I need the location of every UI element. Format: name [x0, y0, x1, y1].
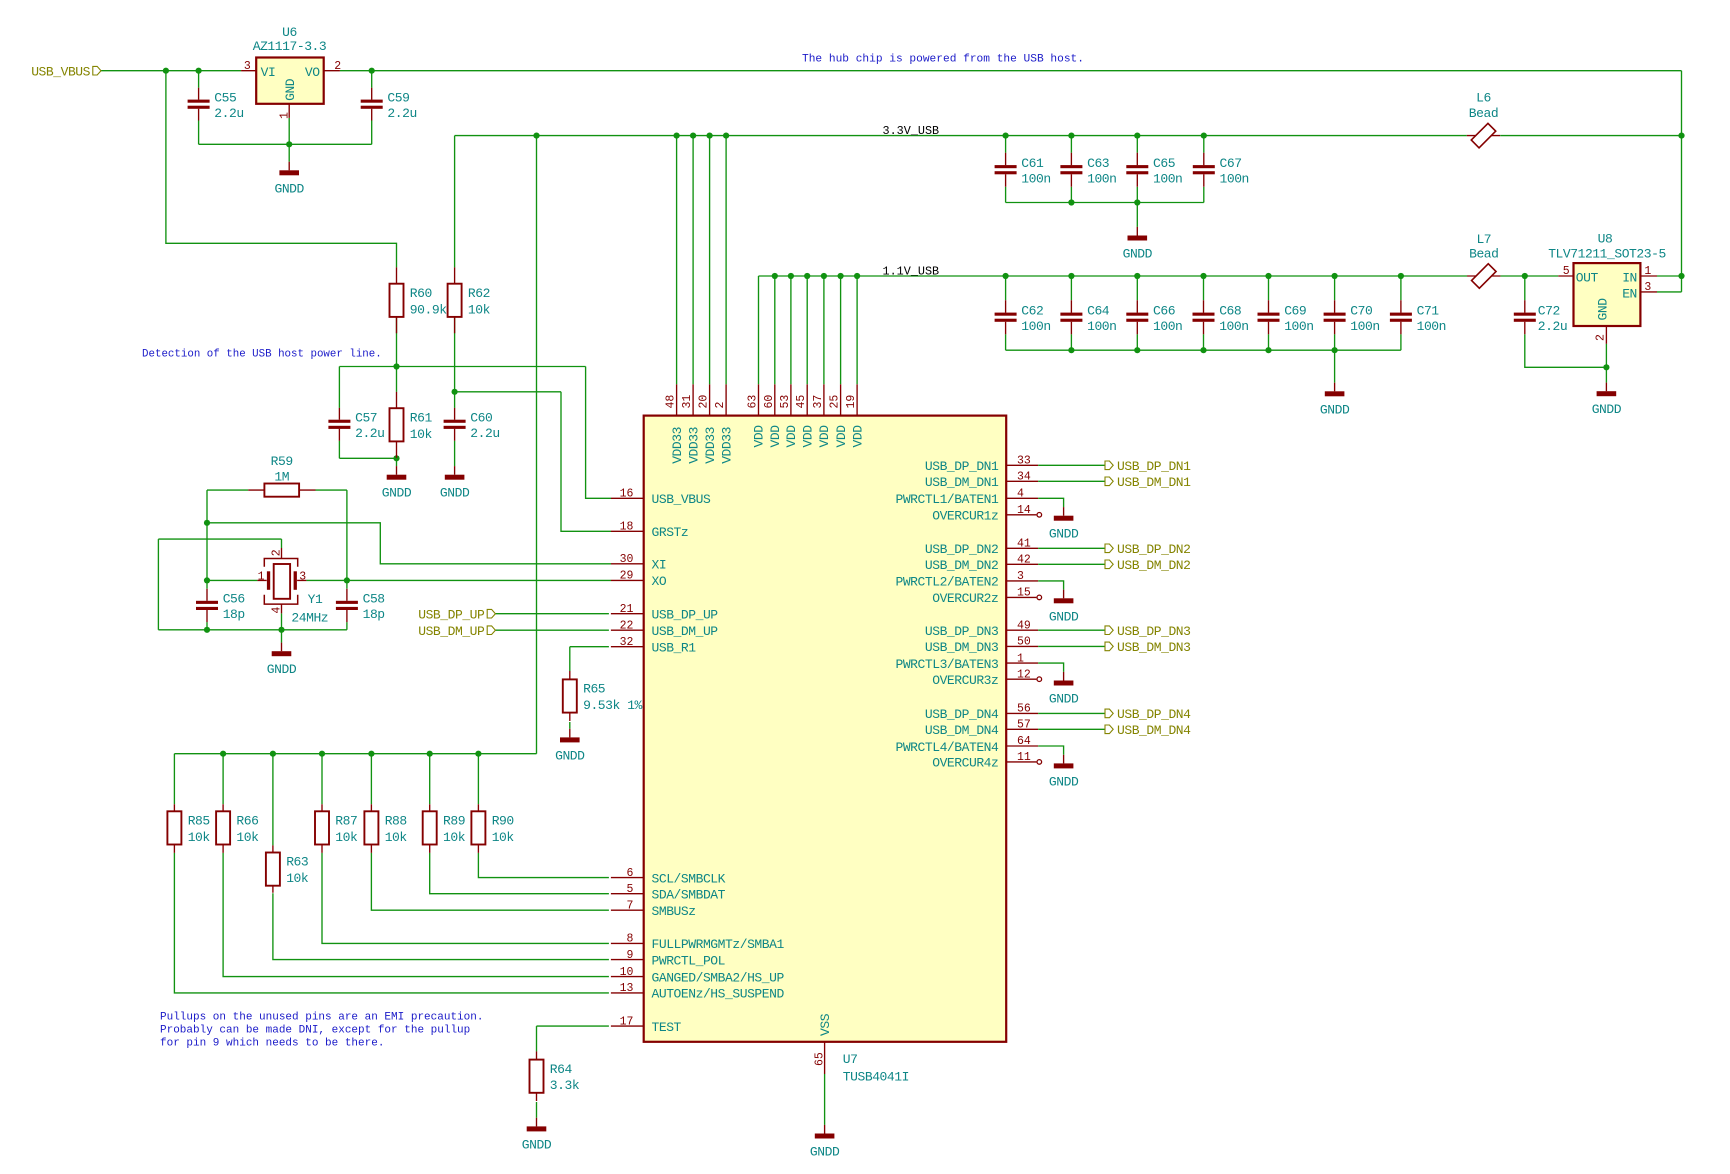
- wire 1.1V_USB rail: [759, 275, 1468, 277]
- ground GNDD under R65: [555, 729, 585, 764]
- svg-text:1: 1: [258, 571, 265, 584]
- svg-text:2: 2: [714, 402, 727, 409]
- svg-text:C69: C69: [1284, 304, 1306, 319]
- svg-text:2: 2: [1594, 334, 1607, 341]
- svg-text:Bead: Bead: [1469, 106, 1498, 121]
- svg-text:37: 37: [812, 395, 825, 409]
- svg-text:42: 42: [1017, 554, 1031, 567]
- wire PWRCTL1 to GNDD: [1038, 498, 1063, 507]
- wire R59 right: [316, 489, 347, 491]
- wire USB_DP_UP to pin 21: [495, 613, 609, 615]
- svg-text:3: 3: [244, 60, 251, 73]
- svg-text:U8: U8: [1598, 232, 1613, 247]
- svg-text:50: 50: [1017, 636, 1031, 649]
- svg-text:VDD: VDD: [817, 425, 832, 448]
- svg-text:7: 7: [626, 899, 633, 912]
- svg-text:USB_DP_UP: USB_DP_UP: [418, 607, 485, 622]
- svg-text:R66: R66: [236, 814, 258, 829]
- svg-text:29: 29: [620, 570, 634, 583]
- resistor R60: [390, 267, 448, 333]
- ground GNDD under VSS: [810, 1125, 840, 1160]
- junctions 1.1V cap ground rail: [1068, 347, 1337, 353]
- svg-text:C67: C67: [1220, 156, 1242, 171]
- svg-text:GANGED/SMBA2/HS_UP: GANGED/SMBA2/HS_UP: [652, 970, 785, 985]
- svg-text:GNDD: GNDD: [1320, 402, 1350, 417]
- wire crystal right node vertical: [346, 490, 348, 589]
- wire C60 bottom to GNDD: [454, 441, 456, 466]
- junction U8 ground node: [1603, 364, 1609, 370]
- wire to R64: [536, 1026, 538, 1051]
- svg-text:GNDD: GNDD: [1123, 247, 1153, 262]
- svg-text:15: 15: [1017, 587, 1031, 600]
- junctions pullup rail: [220, 751, 482, 757]
- wire R62 bottom to GRSTz node: [454, 317, 456, 392]
- resistor R61: [390, 392, 433, 458]
- wire right edge vertical down to U8 IN/EN: [1681, 71, 1683, 292]
- wire R63 bottom to pin 9: [273, 893, 609, 959]
- ferrite bead L6: [1467, 91, 1500, 148]
- svg-text:4: 4: [1017, 488, 1024, 501]
- wire USB_DM_DN3: [1038, 645, 1105, 647]
- wire TEST pin 17: [537, 1025, 609, 1027]
- wire R63 top: [272, 754, 274, 846]
- svg-text:60: 60: [763, 395, 776, 409]
- svg-text:TLV71211_SOT23-5: TLV71211_SOT23-5: [1548, 246, 1666, 261]
- svg-text:1: 1: [1644, 265, 1651, 278]
- svg-text:C64: C64: [1087, 304, 1110, 319]
- wire USB_DM_UP to pin 22: [495, 629, 609, 631]
- svg-text:GRSTz: GRSTz: [652, 525, 689, 540]
- svg-text:USB_DM_DN1: USB_DM_DN1: [1117, 475, 1191, 490]
- svg-text:2.2u: 2.2u: [470, 426, 499, 441]
- wire R61 bottom to GNDD: [396, 458, 398, 466]
- svg-text:2: 2: [271, 549, 284, 556]
- resistor R88: [364, 804, 407, 853]
- wire to GNDD of 1.1V cap bank: [1334, 350, 1336, 383]
- svg-text:VDD: VDD: [784, 425, 799, 448]
- junctions on USB_VBUS rail: [163, 68, 375, 74]
- svg-text:49: 49: [1017, 619, 1031, 632]
- wire 1.1V to VDD pin drop 3: [790, 276, 792, 384]
- svg-text:C63: C63: [1087, 156, 1109, 171]
- svg-text:USB_DP_DN1: USB_DP_DN1: [925, 459, 999, 474]
- svg-text:33: 33: [1017, 455, 1031, 468]
- wire PWRCTL3 to GNDD: [1038, 663, 1063, 672]
- wire 1.1V to VDD pin drop 7: [856, 276, 858, 384]
- resistor R59: [248, 454, 315, 497]
- wire R89 top: [429, 754, 431, 805]
- svg-text:USB_DM_DN1: USB_DM_DN1: [925, 475, 999, 490]
- capacitor C56: [196, 589, 245, 622]
- svg-text:C71: C71: [1417, 304, 1440, 319]
- svg-text:R65: R65: [583, 682, 605, 697]
- hub chip U7 TUSB4041I: [611, 384, 1042, 1084]
- wire crystal pin1 link: [207, 579, 257, 581]
- wire crystal left node vertical: [206, 490, 208, 589]
- svg-text:10k: 10k: [188, 830, 211, 845]
- svg-text:USB_DP_DN1: USB_DP_DN1: [1117, 459, 1191, 474]
- svg-text:for pin 9 which needs to be th: for pin 9 which needs to be there.: [160, 1038, 384, 1050]
- wire 3.3V after L6 to right edge: [1500, 135, 1681, 137]
- svg-text:2.2u: 2.2u: [1538, 319, 1567, 334]
- svg-text:11: 11: [1017, 751, 1031, 764]
- svg-text:R62: R62: [468, 286, 490, 301]
- capacitor C65: [1126, 153, 1182, 187]
- svg-text:FULLPWRMGMTz/SMBA1: FULLPWRMGMTz/SMBA1: [652, 937, 785, 952]
- wire 1.1V to VDD pin drop 1: [758, 276, 760, 384]
- wire 1.1V to VDD pin drop 4: [806, 276, 808, 384]
- svg-text:USB_DP_DN4: USB_DP_DN4: [925, 707, 999, 722]
- wire R88 top: [370, 754, 372, 805]
- wire R61 top: [396, 367, 398, 392]
- svg-text:C62: C62: [1021, 304, 1043, 319]
- capacitor C70: [1324, 300, 1380, 334]
- svg-text:AZ1117-3.3: AZ1117-3.3: [253, 39, 327, 54]
- svg-text:9: 9: [626, 949, 633, 962]
- resistor R66: [216, 804, 259, 853]
- wire R90 top: [477, 754, 479, 805]
- junctions crystal nodes: [204, 520, 350, 633]
- svg-text:10k: 10k: [385, 830, 408, 845]
- svg-text:VDD: VDD: [834, 425, 849, 448]
- svg-text:GNDD: GNDD: [1049, 609, 1079, 624]
- svg-text:USB_DP_DN4: USB_DP_DN4: [1117, 707, 1191, 722]
- svg-text:C66: C66: [1153, 304, 1175, 319]
- svg-text:R85: R85: [188, 814, 210, 829]
- svg-text:100n: 100n: [1220, 171, 1249, 186]
- hier label USB_VBUS: [31, 64, 101, 79]
- ground GNDD 1.1V cap bank: [1320, 383, 1350, 418]
- wire R85 bottom to chip: [174, 853, 609, 993]
- wire 1.1V to VDD pin drop 5: [823, 276, 825, 384]
- wire crystal ground rail: [158, 629, 347, 631]
- svg-text:10k: 10k: [410, 427, 433, 442]
- svg-text:10k: 10k: [236, 830, 259, 845]
- wire U8 GND pin down: [1605, 344, 1607, 383]
- svg-text:C68: C68: [1219, 304, 1241, 319]
- svg-text:GNDD: GNDD: [522, 1137, 552, 1152]
- capacitor C58: [336, 589, 385, 622]
- svg-text:22: 22: [620, 619, 634, 632]
- capacitor C71: [1390, 300, 1446, 334]
- svg-text:4: 4: [270, 607, 283, 614]
- svg-text:56: 56: [1017, 703, 1031, 716]
- wire C59 top: [371, 71, 373, 88]
- svg-text:VSS: VSS: [818, 1013, 833, 1036]
- wire USB_VBUS from label to U6 VI: [101, 70, 241, 72]
- svg-text:R87: R87: [335, 814, 357, 829]
- svg-text:GNDD: GNDD: [810, 1145, 840, 1160]
- svg-text:C57: C57: [355, 411, 377, 426]
- svg-text:5: 5: [626, 883, 633, 896]
- svg-text:R90: R90: [492, 814, 514, 829]
- hier label USB_DM_DN2: [1105, 558, 1191, 573]
- svg-text:U7: U7: [843, 1052, 858, 1067]
- svg-text:XI: XI: [652, 558, 667, 573]
- svg-text:1: 1: [1017, 652, 1024, 665]
- svg-text:PWRCTL4/BATEN4: PWRCTL4/BATEN4: [895, 740, 999, 755]
- resistor R63: [266, 845, 309, 892]
- svg-text:USB_R1: USB_R1: [652, 641, 697, 656]
- resistor R90: [471, 804, 514, 853]
- svg-text:USB_DP_DN2: USB_DP_DN2: [1117, 542, 1191, 557]
- svg-text:GNDD: GNDD: [274, 181, 304, 196]
- junctions 3.3V cap ground rail: [1068, 199, 1140, 205]
- svg-text:R88: R88: [385, 814, 407, 829]
- wire R66 top: [222, 754, 224, 805]
- svg-text:32: 32: [620, 636, 634, 649]
- wire USB_DP_DN4: [1038, 712, 1105, 714]
- wire U8 EN to right edge: [1657, 291, 1682, 293]
- svg-text:USB_DP_DN3: USB_DP_DN3: [925, 624, 999, 639]
- svg-text:TUSB4041I: TUSB4041I: [843, 1069, 909, 1084]
- svg-text:17: 17: [620, 1015, 634, 1028]
- wire C55 top: [198, 71, 200, 88]
- svg-text:USB_DM_DN3: USB_DM_DN3: [1117, 640, 1191, 655]
- svg-text:10k: 10k: [468, 302, 491, 317]
- svg-text:30: 30: [620, 553, 634, 566]
- svg-text:R61: R61: [410, 410, 433, 425]
- svg-text:VDD: VDD: [752, 425, 767, 448]
- capacitor C67: [1193, 153, 1249, 187]
- svg-text:C61: C61: [1021, 156, 1044, 171]
- hier label USB_DP_DN3: [1105, 624, 1191, 639]
- svg-text:GNDD: GNDD: [1049, 692, 1079, 707]
- ground GNDD PWRCTL1: [1049, 507, 1079, 542]
- wire R65 bottom to GNDD: [569, 722, 571, 729]
- svg-text:PWRCTL2/BATEN2: PWRCTL2/BATEN2: [895, 575, 998, 590]
- svg-text:18p: 18p: [223, 607, 245, 622]
- svg-text:90.9k: 90.9k: [410, 302, 447, 317]
- svg-text:IN: IN: [1622, 271, 1637, 286]
- svg-text:100n: 100n: [1153, 171, 1182, 186]
- svg-text:100n: 100n: [1350, 319, 1379, 334]
- svg-text:C59: C59: [387, 91, 409, 106]
- junction U6 ground rail: [286, 141, 292, 147]
- wire R64 bottom to GNDD: [536, 1102, 538, 1118]
- wire 3.3V to VDD33 pin drop 3: [709, 136, 711, 385]
- junctions divider nodes: [393, 363, 457, 461]
- hier label USB_DM_DN1: [1105, 475, 1191, 490]
- svg-text:2: 2: [334, 60, 341, 73]
- svg-text:Pullups on the unused pins are: Pullups on the unused pins are an EMI pr…: [160, 1012, 483, 1024]
- svg-text:GNDD: GNDD: [267, 662, 297, 677]
- svg-text:21: 21: [620, 603, 634, 616]
- svg-text:PWRCTL1/BATEN1: PWRCTL1/BATEN1: [895, 492, 999, 507]
- svg-text:GNDD: GNDD: [1049, 527, 1079, 542]
- svg-text:The hub chip is powered from t: The hub chip is powered from the USB hos…: [802, 54, 1084, 66]
- svg-text:USB_DM_DN4: USB_DM_DN4: [1117, 723, 1191, 738]
- svg-text:USB_VBUS: USB_VBUS: [652, 492, 711, 507]
- svg-text:VDD33: VDD33: [703, 427, 718, 464]
- ground GNDD under R64: [522, 1118, 552, 1153]
- hier label USB_DP_UP: [418, 607, 495, 622]
- svg-text:64: 64: [1017, 735, 1031, 748]
- svg-text:100n: 100n: [1087, 171, 1116, 186]
- wire C57/R61 ground link: [339, 457, 396, 459]
- svg-text:R89: R89: [443, 814, 465, 829]
- svg-text:EN: EN: [1622, 286, 1637, 301]
- svg-text:3.3k: 3.3k: [550, 1078, 580, 1093]
- svg-text:10k: 10k: [492, 830, 515, 845]
- svg-text:14: 14: [1017, 504, 1031, 517]
- capacitor C61: [995, 153, 1051, 187]
- capacitor C63: [1060, 153, 1116, 187]
- svg-text:PWRCTL3/BATEN3: PWRCTL3/BATEN3: [895, 657, 998, 672]
- svg-text:L7: L7: [1476, 232, 1491, 247]
- svg-text:5: 5: [1563, 265, 1570, 278]
- svg-text:PWRCTL_POL: PWRCTL_POL: [652, 953, 726, 968]
- svg-text:OVERCUR4z: OVERCUR4z: [932, 756, 998, 771]
- svg-text:GNDD: GNDD: [1592, 402, 1622, 417]
- svg-text:C56: C56: [223, 592, 245, 607]
- ground GNDD under U8: [1592, 383, 1622, 418]
- wire VSS to GNDD: [824, 1074, 826, 1125]
- wire 3.3V feed down to pullup rail: [536, 136, 538, 754]
- svg-text:45: 45: [795, 395, 808, 409]
- hier label USB_DM_DN3: [1105, 640, 1191, 655]
- svg-text:USB_DP_UP: USB_DP_UP: [652, 608, 719, 623]
- svg-text:R64: R64: [550, 1062, 573, 1077]
- svg-text:GNDD: GNDD: [555, 748, 585, 763]
- wire U8 IN to right edge: [1657, 275, 1682, 277]
- ground GNDD 3.3V cap bank: [1123, 227, 1153, 262]
- svg-text:100n: 100n: [1417, 319, 1446, 334]
- svg-text:34: 34: [1017, 471, 1031, 484]
- regulator U6 AZ1117-3.3: [241, 25, 341, 119]
- svg-text:3.3V_USB: 3.3V_USB: [883, 124, 940, 138]
- svg-text:13: 13: [620, 982, 634, 995]
- svg-text:Detection of the USB host powe: Detection of the USB host power line.: [142, 349, 382, 361]
- capacitor C69: [1258, 300, 1314, 334]
- wire C57 top: [338, 367, 340, 408]
- wire divider node horizontal: [339, 366, 585, 368]
- svg-text:TEST: TEST: [652, 1020, 682, 1035]
- svg-text:100n: 100n: [1153, 319, 1182, 334]
- svg-text:R60: R60: [410, 286, 432, 301]
- svg-text:10k: 10k: [286, 871, 309, 886]
- svg-text:20: 20: [698, 395, 711, 409]
- capacitor C62: [995, 300, 1051, 334]
- svg-text:100n: 100n: [1284, 319, 1313, 334]
- wire XO to pin 29: [306, 579, 611, 581]
- wire USB_DM_DN4: [1038, 728, 1105, 730]
- svg-text:USB_DM_UP: USB_DM_UP: [652, 624, 719, 639]
- wire C72 top: [1524, 276, 1526, 300]
- svg-text:41: 41: [1017, 538, 1031, 551]
- svg-text:2.2u: 2.2u: [355, 426, 384, 441]
- wire to R65: [569, 647, 571, 671]
- wire USB_DP_DN1: [1038, 464, 1105, 466]
- wire USB_DP_DN3: [1038, 629, 1105, 631]
- wire to USB_VBUS pin 16: [586, 367, 611, 499]
- wire PWRCTL2 to GNDD: [1038, 581, 1063, 590]
- svg-text:SMBUSz: SMBUSz: [652, 904, 696, 919]
- ferrite bead L7: [1467, 232, 1500, 288]
- svg-text:USB_DM_UP: USB_DM_UP: [418, 624, 485, 639]
- svg-text:GND: GND: [283, 78, 298, 101]
- svg-text:C65: C65: [1153, 156, 1175, 171]
- wire R90 bottom to chip: [478, 853, 609, 878]
- wire GRSTz node horizontal: [455, 391, 561, 393]
- junctions on 3.3V rail: [533, 133, 1684, 139]
- svg-text:12: 12: [1017, 668, 1031, 681]
- capacitor C72: [1514, 300, 1567, 334]
- svg-text:31: 31: [681, 395, 694, 409]
- svg-text:OVERCUR1z: OVERCUR1z: [932, 509, 998, 524]
- resistor R89: [423, 804, 466, 853]
- svg-text:18p: 18p: [363, 607, 385, 622]
- svg-text:16: 16: [620, 488, 634, 501]
- svg-text:USB_VBUS: USB_VBUS: [31, 64, 90, 79]
- wire USB_R1 pin 32: [570, 646, 609, 648]
- svg-text:Bead: Bead: [1469, 247, 1498, 262]
- wire R66 bottom to chip: [223, 853, 609, 977]
- svg-text:1: 1: [279, 112, 292, 119]
- capacitor C68: [1193, 300, 1249, 334]
- svg-text:GNDD: GNDD: [1049, 774, 1079, 789]
- svg-text:XO: XO: [652, 574, 667, 589]
- wire C72 bottom to U8 GND: [1525, 334, 1607, 367]
- svg-text:100n: 100n: [1087, 319, 1116, 334]
- svg-text:C60: C60: [470, 411, 492, 426]
- resistor R62: [448, 267, 491, 333]
- svg-text:GND: GND: [1596, 298, 1611, 321]
- svg-text:C58: C58: [363, 592, 385, 607]
- svg-text:OVERCUR2z: OVERCUR2z: [932, 591, 998, 606]
- ground GNDD under C60: [440, 466, 470, 501]
- wire USB_VBUS down to R60: [166, 71, 397, 268]
- ground GNDD PWRCTL4: [1049, 755, 1079, 790]
- regulator U8 TLV71211_SOT23-5: [1548, 232, 1666, 344]
- resistor R87: [315, 804, 358, 853]
- resistor R85: [167, 804, 210, 853]
- svg-text:3: 3: [1644, 281, 1651, 294]
- svg-text:63: 63: [747, 395, 760, 409]
- svg-text:3: 3: [299, 571, 306, 584]
- junctions on 1.1V rail: [772, 273, 1685, 279]
- ground GNDD under R61: [382, 466, 412, 501]
- resistor R65: [563, 671, 643, 721]
- capacitor C60: [444, 408, 500, 441]
- svg-text:10k: 10k: [335, 830, 358, 845]
- svg-text:10k: 10k: [443, 830, 466, 845]
- svg-text:53: 53: [779, 395, 792, 409]
- wire C57 bottom: [338, 441, 340, 459]
- svg-text:USB_DP_DN2: USB_DP_DN2: [925, 542, 999, 557]
- svg-text:USB_DP_DN3: USB_DP_DN3: [1117, 624, 1191, 639]
- svg-text:USB_DM_DN3: USB_DM_DN3: [925, 640, 999, 655]
- wire 3.3V_USB rail: [455, 135, 1467, 137]
- svg-text:C70: C70: [1350, 304, 1372, 319]
- wire U6 VO output rail to right edge: [340, 70, 1682, 72]
- wire to GRSTz pin 18: [561, 392, 611, 532]
- svg-text:2.2u: 2.2u: [387, 106, 416, 121]
- wire 3.3V to VDD33 pin drop 2: [692, 136, 694, 385]
- ground GNDD PWRCTL3: [1049, 672, 1079, 707]
- svg-text:SDA/SMBDAT: SDA/SMBDAT: [652, 888, 726, 903]
- svg-text:Y1: Y1: [308, 592, 323, 607]
- wire 1.1V to VDD pin drop 2: [774, 276, 776, 384]
- svg-text:57: 57: [1017, 719, 1031, 732]
- wire 3.3V to VDD33 pin drop 4: [725, 136, 727, 385]
- svg-text:6: 6: [626, 867, 633, 880]
- wire R87 bottom to chip: [322, 853, 609, 944]
- wire 3.3V down to R62: [454, 136, 456, 268]
- hier label USB_DP_DN2: [1105, 542, 1191, 557]
- svg-text:GNDD: GNDD: [382, 486, 412, 501]
- svg-text:OUT: OUT: [1576, 271, 1599, 286]
